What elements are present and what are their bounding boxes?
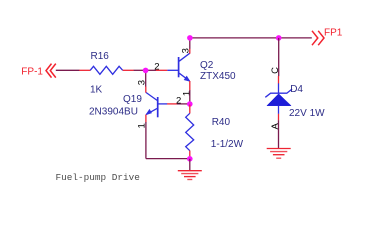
svg-text:R40: R40 xyxy=(212,117,231,128)
svg-text:FP-1: FP-1 xyxy=(21,67,43,78)
transistor Q19 emitter pin xyxy=(145,115,147,123)
transistor Q19 base pin xyxy=(167,103,177,105)
svg-text:Q19: Q19 xyxy=(123,94,142,105)
svg-text:2: 2 xyxy=(176,96,181,107)
diode D4 anode lead xyxy=(278,106,280,114)
svg-text:FP1: FP1 xyxy=(324,28,343,39)
node A junction dot xyxy=(143,68,149,74)
transistor Q19 collector lead xyxy=(146,92,157,100)
port FP-1 chevron xyxy=(46,64,56,78)
transistor Q2 collector pin xyxy=(189,49,191,54)
svg-text:22V 1W: 22V 1W xyxy=(289,108,325,119)
transistor Q2 emitter lead xyxy=(179,73,189,81)
transistor Q19 emitter arrow xyxy=(146,109,152,114)
transistor Q2 base lead xyxy=(167,69,178,71)
transistor Q19 bar xyxy=(157,97,159,117)
resistor R16 body xyxy=(90,66,123,74)
wire D4 anode to ground xyxy=(278,120,280,148)
node rail-D4 junction dot xyxy=(276,35,282,41)
wire bottom horizontal to node C xyxy=(146,158,190,160)
transistor Q19 emitter lead xyxy=(146,108,157,114)
transistor Q2 bar xyxy=(178,57,180,77)
svg-text:Fuel-pump Drive: Fuel-pump Drive xyxy=(56,172,141,183)
transistor Q2 emitter arrow xyxy=(184,76,190,81)
diode D4 cathode pin xyxy=(278,76,280,84)
wire FP-1 to R16 xyxy=(56,69,80,71)
svg-text:A: A xyxy=(270,122,281,129)
diode D4 triangle xyxy=(267,94,291,106)
ground symbol at D4 xyxy=(267,149,291,159)
wire rail to D4 cathode xyxy=(278,38,280,76)
ground stem at node C xyxy=(189,159,191,171)
svg-text:1-1/2W: 1-1/2W xyxy=(211,139,244,150)
wire node A down to Q19 collector xyxy=(145,70,147,87)
svg-text:Q2: Q2 xyxy=(200,60,214,71)
wire Q2 collector to rail corner xyxy=(189,38,191,49)
transistor Q19 base lead xyxy=(158,103,167,105)
svg-text:3: 3 xyxy=(136,80,147,85)
diode D4 anode pin xyxy=(278,114,280,121)
wire Q19 emitter down xyxy=(145,122,147,159)
resistor R16 pin right xyxy=(123,69,134,71)
resistor R40 pin top xyxy=(189,105,191,114)
resistor R40 pin bottom xyxy=(189,151,191,159)
wire Q2 emitter to node B xyxy=(189,90,191,104)
svg-text:R16: R16 xyxy=(91,51,110,62)
transistor Q2 emitter pin xyxy=(189,81,191,90)
transistor Q2 base pin xyxy=(156,69,168,71)
wire R16 to node A xyxy=(134,69,146,71)
svg-text:3: 3 xyxy=(181,48,192,53)
svg-text:D4: D4 xyxy=(290,84,303,95)
node B junction dot xyxy=(187,101,193,107)
node C junction dot xyxy=(187,156,193,162)
resistor R1 pin left xyxy=(79,69,90,71)
wire Q19 base to node B xyxy=(177,103,190,105)
svg-text:C: C xyxy=(270,67,281,74)
svg-text:ZTX450: ZTX450 xyxy=(200,71,236,82)
diode D4 zener bar xyxy=(265,89,292,97)
diode D4 cathode lead xyxy=(278,83,280,93)
svg-text:2N3904BU: 2N3904BU xyxy=(89,106,138,117)
node rail-left junction dot xyxy=(187,35,193,41)
transistor Q2 collector lead xyxy=(179,53,190,61)
wire node A to Q2 base xyxy=(146,69,156,71)
svg-text:1K: 1K xyxy=(90,85,103,96)
ground symbol at node C xyxy=(178,171,202,180)
port FP1 chevron xyxy=(312,31,324,45)
svg-text:2: 2 xyxy=(154,61,159,72)
svg-text:1: 1 xyxy=(181,91,192,96)
wire top rail xyxy=(190,37,312,39)
resistor R40 body xyxy=(186,113,194,150)
transistor Q19 collector pin xyxy=(145,87,147,93)
